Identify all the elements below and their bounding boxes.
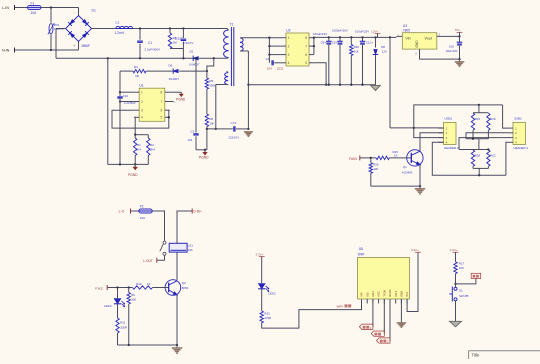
svg-text:C16: C16	[449, 44, 455, 48]
svg-text:R16: R16	[475, 117, 481, 121]
svg-text:R10: R10	[136, 282, 142, 286]
svg-text:2222C: 2222C	[175, 36, 183, 40]
svg-text:D8: D8	[381, 45, 385, 49]
svg-text:8: 8	[305, 36, 307, 40]
svg-text:R1: R1	[137, 143, 141, 147]
svg-text:1K: 1K	[147, 282, 151, 286]
svg-text:D1: D1	[92, 9, 96, 13]
svg-text:5: 5	[161, 116, 163, 120]
svg-text:R11: R11	[120, 321, 125, 325]
svg-text:GND: GND	[400, 291, 404, 297]
svg-text:R12: R12	[264, 311, 270, 315]
svg-text:10A: 10A	[31, 11, 38, 15]
svg-text:F2: F2	[140, 204, 144, 208]
svg-text:L-IN: L-IN	[2, 6, 9, 10]
svg-text:5: 5	[305, 61, 307, 65]
svg-text:7: 7	[305, 44, 307, 48]
svg-text:8050: 8050	[182, 286, 189, 290]
svg-text:D6: D6	[169, 63, 173, 67]
svg-text:4: 4	[141, 116, 143, 120]
svg-text:1K: 1K	[394, 154, 398, 158]
svg-text:150K: 150K	[209, 83, 216, 87]
svg-text:R6: R6	[209, 117, 213, 121]
svg-text:LED2: LED2	[268, 292, 276, 296]
svg-text:222/1KV: 222/1KV	[229, 135, 240, 139]
svg-text:4: 4	[288, 61, 290, 65]
svg-text:C10: C10	[123, 94, 129, 98]
svg-text:IO5: IO5	[365, 292, 369, 297]
svg-text:PGND: PGND	[128, 173, 138, 177]
svg-text:LS1: LS1	[188, 244, 194, 248]
svg-text:C12+: C12+	[366, 41, 373, 45]
svg-text:R18: R18	[475, 153, 481, 157]
svg-text:1: 1	[141, 91, 143, 95]
svg-text:51K: 51K	[354, 49, 359, 53]
svg-text:AO3400: AO3400	[402, 170, 413, 174]
svg-text:6: 6	[161, 109, 163, 113]
svg-text:R17: R17	[459, 261, 465, 265]
svg-text:2.2U/50V: 2.2U/50V	[124, 101, 136, 105]
svg-text:1M: 1M	[173, 41, 178, 45]
svg-text:U5: U5	[359, 247, 363, 251]
svg-text:N-IN: N-IN	[2, 49, 10, 53]
svg-text:Q1: Q1	[403, 165, 407, 169]
svg-text:WIFI: WIFI	[358, 252, 365, 256]
svg-text:104: 104	[267, 66, 272, 70]
svg-text:ADC: ADC	[377, 291, 381, 297]
svg-text:C9+: C9+	[321, 41, 327, 45]
svg-text:D2: D2	[190, 50, 194, 54]
svg-text:C4: C4	[266, 57, 270, 61]
svg-text:470R: 470R	[264, 316, 271, 320]
svg-text:R19: R19	[490, 117, 496, 121]
svg-text:2.2uF/400V: 2.2uF/400V	[145, 48, 161, 52]
svg-text:+: +	[73, 44, 75, 48]
svg-text:10K: 10K	[209, 121, 214, 125]
svg-text:Vin: Vin	[406, 36, 411, 40]
svg-text:F1: F1	[31, 2, 35, 6]
svg-text:10A: 10A	[140, 216, 145, 220]
svg-text:1000uF/16V: 1000uF/16V	[332, 29, 348, 33]
svg-text:GND: GND	[415, 40, 419, 48]
svg-text:10K: 10K	[131, 297, 136, 301]
svg-text:HEADER 4: HEADER 4	[514, 146, 529, 150]
svg-text:12V+: 12V+	[371, 30, 379, 34]
svg-text:2222: 2222	[277, 66, 284, 70]
svg-text:IO14: IO14	[394, 290, 398, 296]
svg-text:D-IN+: D-IN+	[193, 210, 202, 214]
svg-text:R4: R4	[134, 65, 138, 69]
svg-text:MB6F: MB6F	[82, 44, 91, 48]
svg-text:1.2mH: 1.2mH	[115, 31, 125, 35]
svg-text:2: 2	[141, 100, 143, 104]
svg-text:IO4: IO4	[360, 292, 364, 297]
svg-text:2K4: 2K4	[136, 148, 141, 152]
svg-text:7805: 7805	[403, 28, 410, 32]
svg-text:-: -	[74, 11, 75, 15]
svg-text:RXD0: RXD0	[388, 289, 392, 297]
svg-text:L-OUT: L-OUT	[143, 259, 153, 263]
svg-text:USB2: USB2	[514, 117, 522, 121]
svg-text:104: 104	[188, 138, 193, 142]
svg-text:10uF/16V: 10uF/16V	[446, 49, 458, 53]
svg-text:TXD0: TXD0	[382, 289, 386, 296]
svg-text:7: 7	[161, 100, 163, 104]
svg-text:3.3V+: 3.3V+	[256, 252, 264, 256]
svg-text:1N4007: 1N4007	[169, 77, 180, 81]
svg-text:0R: 0R	[135, 74, 139, 78]
svg-text:C1: C1	[148, 41, 152, 45]
svg-text:R20: R20	[354, 45, 360, 49]
svg-text:3: 3	[288, 53, 290, 57]
svg-text:3.3V+: 3.3V+	[450, 248, 458, 252]
svg-text:3: 3	[141, 109, 143, 113]
svg-text:U1: U1	[139, 84, 143, 88]
svg-text:10A: 10A	[188, 248, 193, 252]
svg-text:472/1KV: 472/1KV	[183, 41, 194, 45]
svg-text:LED4: LED4	[104, 304, 112, 308]
svg-text:1N4007: 1N4007	[189, 62, 200, 66]
svg-text:USB1: USB1	[444, 117, 452, 121]
svg-text:2K4: 2K4	[150, 148, 155, 152]
svg-text:6: 6	[305, 53, 307, 57]
svg-text:1: 1	[288, 36, 290, 40]
svg-text:8: 8	[161, 91, 163, 95]
svg-text:R9: R9	[131, 293, 135, 297]
svg-text:Vout: Vout	[425, 36, 432, 40]
svg-text:C3: C3	[190, 129, 194, 133]
svg-text:R2: R2	[150, 143, 154, 147]
svg-text:L1: L1	[116, 21, 120, 25]
svg-text:Title: Title	[472, 353, 480, 358]
svg-text:R22: R22	[490, 153, 496, 157]
svg-text:T1: T1	[230, 23, 234, 27]
svg-text:100uF/16V: 100uF/16V	[313, 32, 327, 36]
svg-text:200R: 200R	[120, 325, 127, 329]
svg-text:2: 2	[288, 44, 290, 48]
svg-text:3.3V+: 3.3V+	[411, 248, 419, 252]
svg-text:CY1: CY1	[231, 121, 237, 125]
svg-text:HEADER 4: HEADER 4	[444, 146, 459, 150]
svg-text:FJKZ: FJKZ	[95, 286, 103, 290]
svg-text:5V+: 5V+	[455, 28, 461, 32]
svg-text:WIFI: WIFI	[337, 304, 344, 308]
svg-text:3V3: 3V3	[405, 292, 409, 297]
svg-text:S1: S1	[459, 289, 463, 293]
svg-text:U2: U2	[286, 28, 290, 32]
svg-text:PGND: PGND	[199, 156, 209, 160]
svg-text:C5+: C5+	[332, 41, 338, 45]
svg-text:FAN1: FAN1	[349, 157, 357, 161]
svg-text:SW-PB: SW-PB	[459, 294, 468, 298]
svg-text:10K: 10K	[373, 167, 378, 171]
svg-text:IO12: IO12	[371, 290, 375, 296]
svg-text:PGND: PGND	[176, 97, 186, 101]
svg-text:12V: 12V	[382, 50, 387, 54]
svg-text:L-O: L-O	[119, 210, 125, 214]
svg-text:10K: 10K	[459, 266, 464, 270]
svg-text:100uF/25V: 100uF/25V	[355, 29, 369, 33]
svg-text:Q2: Q2	[182, 281, 186, 285]
